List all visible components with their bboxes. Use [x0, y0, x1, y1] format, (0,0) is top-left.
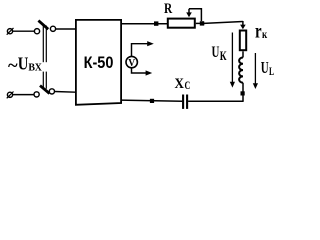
voltmeter U2 circle: [126, 56, 137, 67]
wire switch to box K-50 top-left: [56, 28, 76, 30]
svg-text:К-50: К-50: [84, 53, 114, 72]
wire coil L to bottom wire: [242, 83, 244, 102]
terminal X2 (bottom input, circle with slash): [7, 92, 14, 99]
wire capacitor Xc to coil bottom: [188, 100, 244, 102]
wire r_k to coil L: [242, 51, 244, 57]
switch SA1 pole 1 left contact: [34, 29, 39, 34]
voltmeter bottom probe wire with arrow: [132, 68, 153, 76]
wire R to right branch: [196, 22, 205, 24]
arrow U_L (voltage across L): [253, 53, 258, 89]
wire box K-50 to capacitor Xc (bottom): [121, 100, 182, 101]
label X_C: [175, 76, 191, 92]
capacitor Xc left plate: [182, 95, 184, 109]
wire wiper to right end of R (rheostat connection): [189, 9, 201, 21]
label r_k: [255, 20, 267, 42]
voltmeter top probe wire with arrow: [132, 41, 154, 56]
wire switch to box K-50 bottom-left: [55, 91, 76, 94]
resistor r_k body: [240, 31, 246, 51]
svg-text:ВХ: ВХ: [28, 63, 42, 74]
node A junction dot on top wire: [154, 21, 158, 25]
terminal X1 (top input, circle with slash): [7, 28, 14, 35]
svg-text:к: к: [262, 29, 267, 41]
switch SA1 pole 1 right contact: [50, 26, 55, 31]
label U_L: [261, 58, 274, 78]
svg-text:К: К: [220, 48, 227, 63]
svg-text:C: C: [185, 78, 191, 92]
box U1 K-50 oscillator: [76, 20, 121, 105]
resistor R wiper arrow: [186, 9, 192, 17]
label U_K: [212, 44, 227, 63]
svg-text:X: X: [175, 76, 185, 92]
switch SA1 pole 2 blade (open): [40, 86, 50, 94]
switch SA1 pole 2 left contact: [34, 92, 39, 97]
svg-text:U: U: [212, 44, 220, 61]
switch SA1 pole 1 blade (open): [38, 21, 48, 30]
node C junction dot at coil bottom: [241, 91, 245, 95]
svg-text:U: U: [18, 53, 29, 73]
inductor L (4 arcs): [239, 58, 243, 83]
svg-text:R: R: [164, 1, 173, 17]
label ~Uvx (input voltage): [8, 53, 43, 75]
switch mechanical link (two dashed vertical bars): [43, 26, 46, 89]
node B junction dot right of R: [200, 21, 204, 25]
svg-text:L: L: [269, 64, 274, 78]
resistor R body: [168, 19, 195, 28]
wire down into r_k with arrow: [240, 21, 246, 29]
svg-text:V: V: [128, 57, 135, 69]
svg-text:r: r: [255, 20, 262, 42]
switch SA1 pole 2 right contact: [49, 89, 54, 94]
svg-text:U: U: [261, 58, 269, 77]
arrow U_K (voltage across r_k + L): [230, 33, 235, 88]
wire terminal X2 to switch contact: [13, 94, 34, 96]
node D junction dot on bottom wire: [150, 99, 154, 103]
wire terminal X1 to switch contact: [13, 30, 35, 32]
capacitor Xc right plate: [186, 95, 188, 109]
wire box K-50 to resistor R (top): [122, 23, 167, 25]
